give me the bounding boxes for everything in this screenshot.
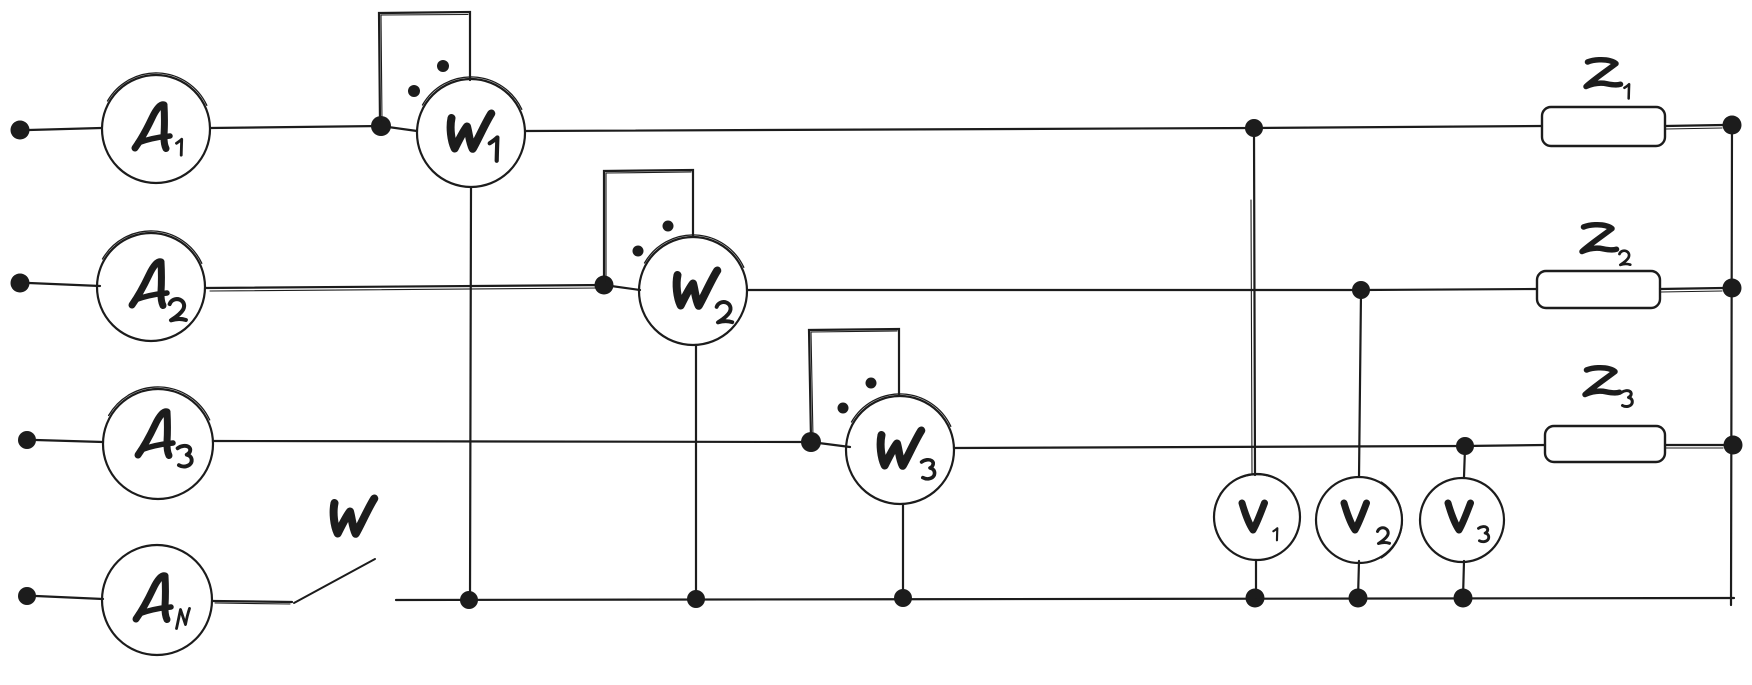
voltmeter V2 [1316, 477, 1402, 563]
terminal node line 1 [11, 121, 30, 140]
label Z1 [1586, 60, 1629, 99]
wire terminal to A3 [36, 440, 103, 442]
W3 current coil loop [809, 329, 899, 439]
switch W blade (open) [294, 559, 375, 603]
wire V2 tap vertical [1359, 292, 1361, 477]
wire V2 to neutral [1358, 561, 1359, 598]
junction node neutral V2 [1349, 589, 1368, 608]
W2 polarity dot 2 [663, 221, 674, 232]
wire V3 tap vertical [1464, 448, 1465, 477]
ammeter A2 [97, 231, 205, 341]
wire W2 to Z2 phase 2 [747, 289, 1537, 290]
junction node neutral W3 [894, 589, 912, 607]
junction node right bus phase 1 [1723, 116, 1742, 135]
right bus wire [1731, 125, 1732, 605]
wattmeter W2 [639, 235, 747, 345]
voltmeter V3 [1420, 478, 1504, 562]
terminal node line 2 [11, 274, 30, 293]
neutral bus wire [396, 598, 1734, 600]
junction node right bus phase 3 [1724, 436, 1743, 455]
wire terminal to A1 [29, 128, 101, 130]
W1 polarity dot 1 [408, 85, 420, 97]
wire AN to switch [213, 601, 292, 602]
wire W3 to Z3 phase 3 [954, 445, 1545, 448]
junction node neutral V1 [1246, 589, 1265, 608]
wattmeter W3 [846, 394, 954, 504]
junction node neutral W1 [460, 591, 478, 609]
terminal node neutral line [18, 587, 36, 605]
ammeter A1 [102, 73, 210, 183]
W3 polarity dot 2 [866, 378, 877, 389]
W1 current coil loop [379, 12, 470, 123]
wire V1 to neutral [1255, 560, 1257, 598]
junction node V3 tap on phase 3 [1456, 437, 1474, 455]
W1 voltage coil wire [470, 187, 471, 600]
label Z3 [1585, 368, 1632, 407]
junction node V2 tap on phase 2 [1352, 281, 1370, 299]
W3 voltage coil wire [902, 504, 904, 598]
wire V1 tap vertical [1254, 130, 1255, 475]
wire W1 to Z1 phase 1 [525, 126, 1542, 131]
ammeter AN [102, 545, 212, 655]
wire A3 to W3 [213, 441, 850, 447]
W2 voltage coil wire [695, 345, 697, 599]
terminal node line 3 [18, 431, 36, 449]
voltmeter V1 [1214, 474, 1300, 560]
wattmeter W1 [417, 77, 525, 187]
wire Z1 to right bus [1665, 125, 1723, 126]
junction node W3 coil tap [801, 432, 821, 452]
wire terminal to AN [36, 596, 103, 599]
impedance Z1 [1542, 107, 1665, 146]
label Z2 [1582, 225, 1630, 265]
wire Z2 to right bus [1660, 288, 1723, 289]
wire Z3 to right bus [1665, 444, 1724, 446]
ammeter A3 [103, 387, 213, 499]
wire A1 to W1 [210, 126, 417, 131]
junction node W2 coil tap [595, 276, 614, 295]
junction node neutral W2 [687, 590, 705, 608]
W3 polarity dot 1 [838, 403, 849, 414]
junction node W1 coil tap [371, 116, 391, 136]
junction node neutral V3 [1454, 589, 1473, 608]
wire V3 to neutral [1463, 561, 1464, 598]
label W switch [334, 499, 375, 534]
wire terminal to A2 [29, 283, 100, 286]
junction node right bus phase 2 [1723, 279, 1742, 298]
W1 polarity dot 2 [437, 60, 449, 72]
impedance Z3 [1545, 426, 1665, 462]
W2 current coil loop [604, 170, 693, 282]
W2 polarity dot 1 [633, 246, 644, 257]
wire A2 to W2 [205, 285, 640, 290]
junction node V1 tap on phase 1 [1245, 119, 1263, 137]
impedance Z2 [1537, 271, 1660, 308]
